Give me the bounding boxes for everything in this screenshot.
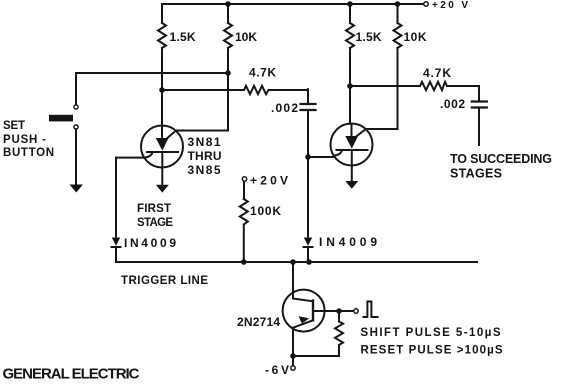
arrow SCS2 cathode to bus	[345, 181, 358, 189]
resistor 4.7K stage2	[420, 82, 447, 90]
wire anode-gate stage1 from 10K node	[168, 73, 229, 138]
wire column stage1 anode (1.5K branch)	[161, 4, 163, 126]
terminal +20V middle	[242, 177, 246, 181]
wire push-button upper lead	[75, 73, 77, 105]
svg-text:4.7K: 4.7K	[249, 66, 276, 80]
arrow SCS1 cathode to bus	[156, 185, 169, 193]
SCS2 anode lead inside	[351, 124, 353, 136]
node top rail / 10K stage1	[225, 1, 231, 7]
wire emitter rail to base resistor	[293, 345, 339, 356]
SCS1 base bar	[147, 151, 178, 153]
wire cap2 open lead to succeeding stages	[478, 109, 480, 145]
svg-text:+20V: +20V	[250, 174, 288, 188]
wire collector from trigger line	[292, 262, 294, 293]
wire column stage2 anode (right 1.5K)	[349, 4, 351, 124]
wire cathode-gate stage2 from cap1 node	[308, 156, 334, 157]
svg-text:IN4009: IN4009	[319, 235, 377, 249]
resistor 10K stage2	[394, 23, 402, 48]
svg-text:3N85: 3N85	[188, 163, 221, 177]
SCS1 cathode-gate inside curve	[144, 152, 152, 157]
terminal -6V	[291, 366, 295, 370]
wire diode1 to trigger line	[115, 247, 117, 262]
op-amp? no: SCS U1 circle 3N81	[141, 126, 183, 168]
svg-text:STAGES: STAGES	[450, 167, 502, 181]
svg-text:FIRST: FIRST	[137, 203, 171, 215]
node stage2 anode junction	[347, 83, 353, 89]
svg-text:IN4009: IN4009	[124, 236, 176, 250]
2N2714 emitter arrowhead	[299, 316, 310, 323]
node trigger/100K	[241, 259, 247, 265]
wire cathode-gate column to diode1	[115, 158, 117, 237]
2N2714 base lead	[313, 310, 339, 312]
resistor base return	[335, 322, 343, 346]
svg-text:SHIFT PULSE 5-10µS: SHIFT PULSE 5-10µS	[361, 327, 501, 339]
resistor 1.5K stage1	[158, 23, 166, 48]
node top rail / 1.5K stage2	[347, 1, 353, 7]
SCS1 pn arrow	[156, 138, 169, 151]
push-button actuator bar	[49, 115, 73, 122]
wire 100K to trigger line	[243, 225, 245, 263]
wire resistor to base node	[338, 311, 340, 322]
2N2714 base bar	[312, 301, 314, 321]
wire emitter down	[292, 328, 294, 356]
node trigger/diode2	[306, 259, 312, 265]
resistor 10K stage1	[224, 23, 232, 48]
wire push-button lower lead	[75, 129, 77, 184]
wire push-button line to 10K node	[76, 72, 228, 74]
wire diode2 to trigger line	[307, 247, 309, 262]
svg-text:TO SUCCEEDING: TO SUCCEEDING	[450, 152, 552, 166]
push-button top contact	[74, 105, 78, 109]
SCS2 pn arrow	[345, 136, 358, 149]
wire column stage2 10K branch	[397, 4, 399, 129]
diode 1N4009 stage1	[112, 238, 120, 246]
diode 1N4009 stage2	[304, 238, 312, 246]
svg-text:4.7K: 4.7K	[423, 66, 451, 80]
svg-text:-6V: -6V	[265, 363, 289, 377]
SCS1 cathode lead	[161, 152, 163, 185]
svg-text:THRU: THRU	[188, 149, 222, 163]
svg-text:RESET PULSE >100µS: RESET PULSE >100µS	[361, 345, 503, 357]
push-button bottom contact	[74, 125, 78, 129]
node trigger/collector	[290, 259, 296, 265]
arrow push-button to bus	[70, 185, 84, 193]
node stage1 anode junction	[159, 87, 165, 93]
2N2714 collector inside	[293, 293, 313, 301]
svg-text:1.5K: 1.5K	[170, 30, 196, 44]
svg-text:+20 V: +20 V	[432, 0, 468, 11]
svg-text:.002: .002	[440, 97, 465, 111]
svg-text:1.5K: 1.5K	[356, 30, 382, 44]
SCS2 cathode-gate inside curve	[334, 150, 342, 155]
node cathode-gate stage2 junction	[305, 154, 311, 160]
node top rail / 10K stage2	[395, 1, 401, 7]
wire 4.7K coupling line stage2	[350, 85, 479, 87]
svg-text:BUTTON: BUTTON	[3, 147, 54, 159]
svg-text:PUSH -: PUSH -	[3, 134, 46, 146]
wire anode-gate stage2	[357, 129, 398, 136]
SCS1 anode lead inside	[161, 126, 163, 138]
SCS2 base bar	[337, 149, 368, 151]
wire base node to input terminal	[339, 310, 354, 312]
wire cap1 top lead	[307, 89, 309, 103]
svg-text:3N81: 3N81	[188, 135, 221, 149]
svg-text:TRIGGER LINE: TRIGGER LINE	[121, 275, 208, 287]
wire -6V lead	[292, 356, 294, 366]
resistor 4.7K stage1	[244, 86, 270, 94]
terminal +20V top	[424, 2, 428, 6]
SCS U2 circle 3N81 stage2	[331, 124, 373, 166]
wire column stage1 10K branch	[227, 4, 229, 73]
node push-button / 10K stage1	[225, 70, 231, 76]
svg-text:2N2714: 2N2714	[237, 315, 280, 329]
resistor 100K	[240, 199, 248, 225]
svg-text:SET: SET	[3, 120, 25, 132]
transistor Q1 2N2714 circle	[283, 290, 325, 332]
wire +20V top rail	[162, 3, 424, 5]
capacitor .002 stage2	[472, 102, 487, 108]
resistor 1.5K stage2	[346, 23, 354, 48]
SCS2 cathode lead	[351, 150, 353, 181]
capacitor .002 stage1	[301, 104, 316, 110]
node base/input	[336, 308, 342, 314]
wire 4.7K coupling line stage1	[162, 89, 308, 91]
svg-text:100K: 100K	[250, 204, 281, 218]
wire trigger line	[116, 261, 477, 263]
wire cathode-gate stage1	[116, 157, 144, 159]
wire +20V to 100K	[243, 181, 245, 199]
node emitter/-6V	[290, 353, 296, 359]
svg-text:.002: .002	[271, 101, 298, 115]
pulse waveform symbol	[364, 302, 378, 318]
2N2714 emitter diagonal	[293, 320, 313, 327]
svg-text:GENERAL ELECTRIC: GENERAL ELECTRIC	[3, 366, 140, 383]
wire cap1 bottom lead / diode2 column	[307, 111, 309, 236]
svg-text:10K: 10K	[235, 30, 257, 44]
terminal shift pulse input	[354, 309, 358, 313]
svg-text:10K: 10K	[404, 30, 427, 44]
wire cap2 top lead	[478, 86, 480, 100]
svg-text:STAGE: STAGE	[137, 217, 173, 229]
